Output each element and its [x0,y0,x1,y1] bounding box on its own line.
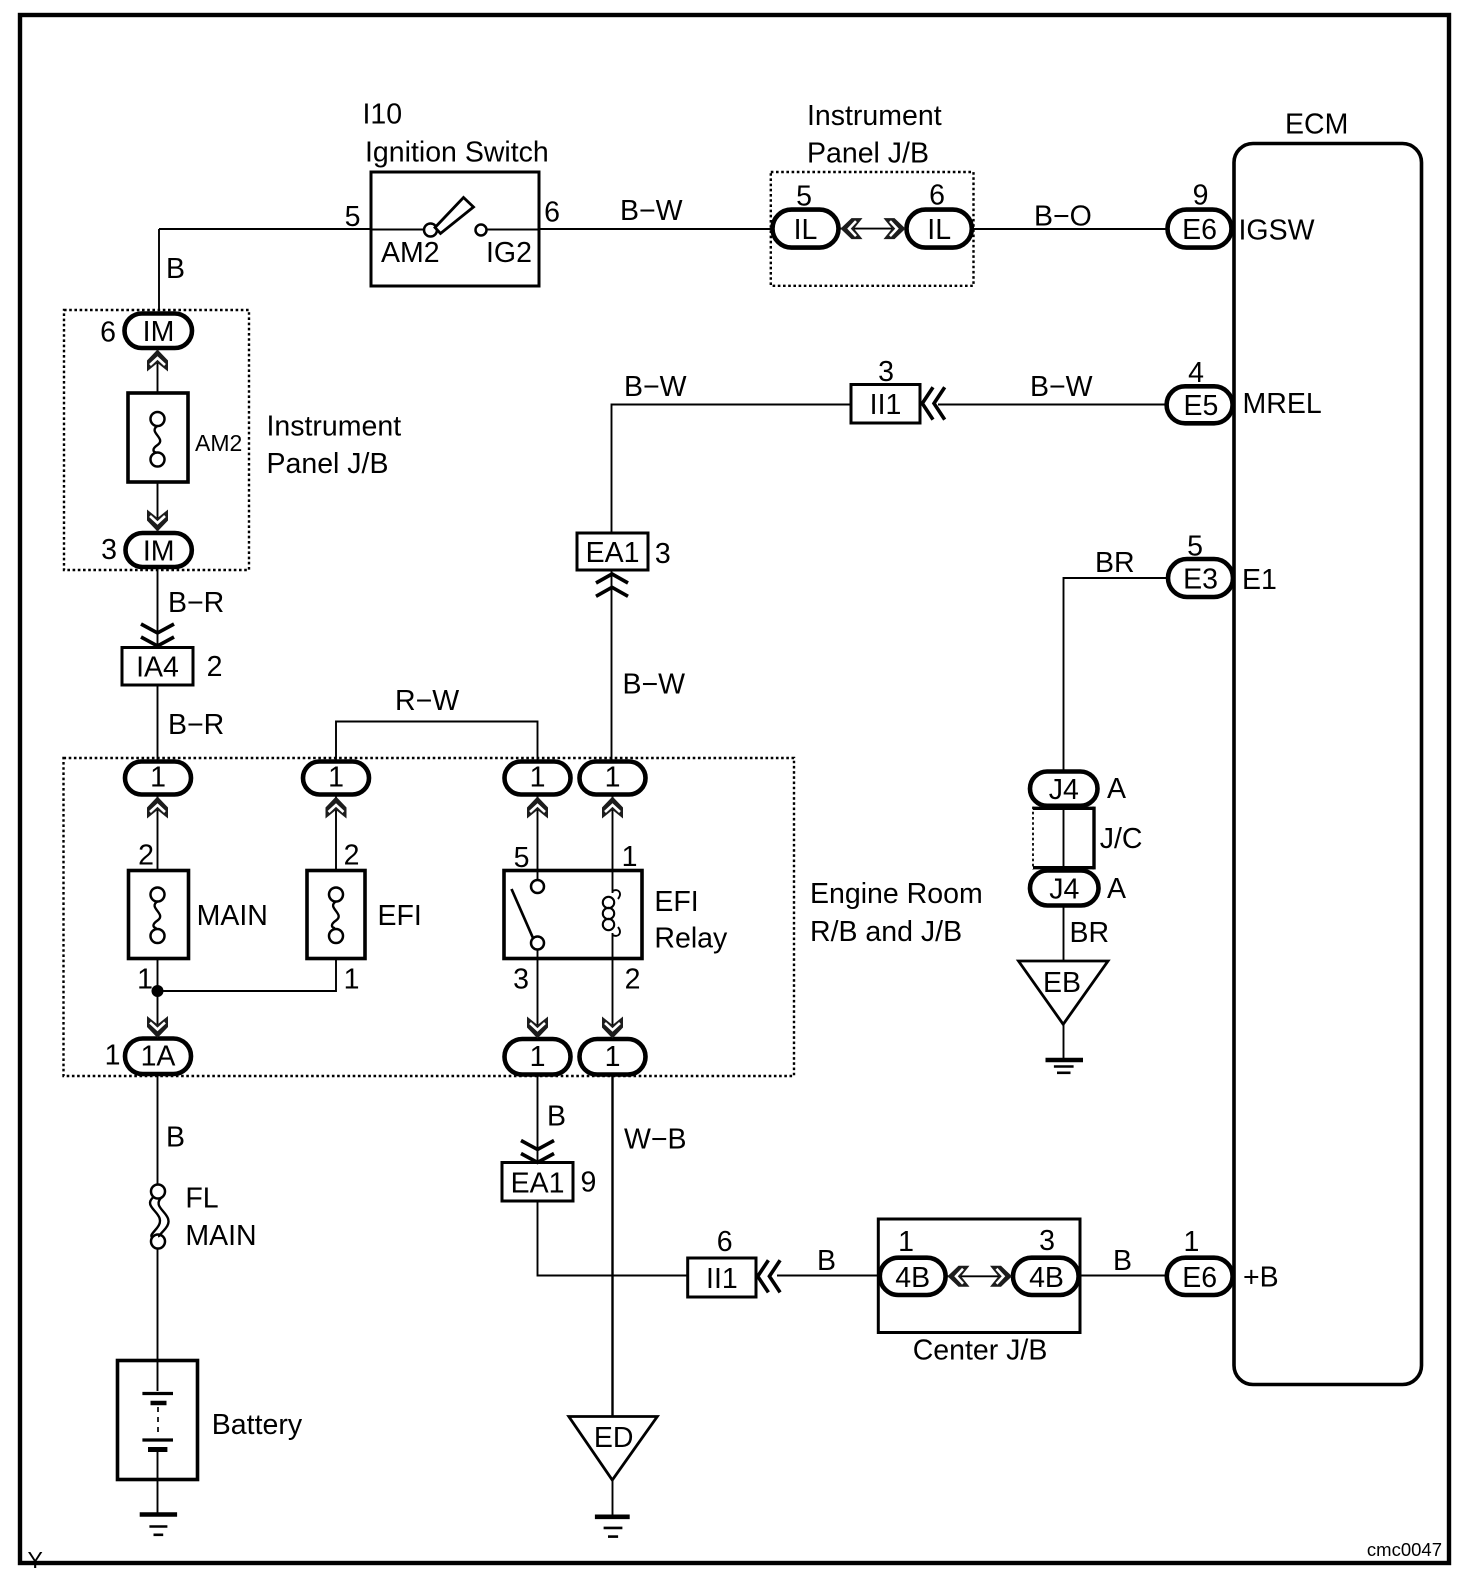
svg-text:MREL: MREL [1243,388,1322,420]
svg-text:B: B [547,1101,566,1133]
connector IL pin5 oval [773,210,839,248]
svg-text:Instrument: Instrument [807,100,942,132]
wire: battery to ground [157,1478,159,1513]
open chevron left toward II1-3 [922,387,944,419]
hatched arrow up below oval1-relay5 [527,797,548,819]
wire: between IL ovals [838,228,907,230]
hatched arrow down toward 1A [147,1016,168,1038]
wire: through J/C between J4 ovals [1063,805,1065,871]
hatched arrow up below oval1-MAIN [147,797,168,819]
wire: relay pin3 to lower oval [537,957,539,1040]
svg-text:Panel J/B: Panel J/B [807,138,929,170]
wire: oval to MAIN fuse pin2 [157,794,159,871]
wire W-B: oval down to ED ground triangle [611,1074,613,1416]
relay EFI box [504,871,642,959]
svg-text:EFI: EFI [654,886,698,918]
svg-text:EFI: EFI [378,900,422,932]
svg-text:Instrument: Instrument [267,411,402,443]
connector 4B pin3 oval [1013,1258,1079,1295]
connector IA4 pin2 box [122,648,193,686]
svg-text:E3: E3 [1183,564,1218,596]
wire B: lower oval to EA1-9 [537,1074,539,1163]
svg-text:AM2: AM2 [381,237,440,269]
wire B: 1A oval to FL MAIN [157,1074,159,1185]
wire B-R: IM(3) to IA4 [157,567,159,649]
connector oval 1A [125,1039,191,1075]
fuse MAIN [129,871,189,959]
relay switch contact bottom (pin3) [531,937,544,950]
connector oval 1 (to EFI) [303,762,369,795]
instrument panel J/B box (top) [771,172,974,286]
svg-text:W−B: W−B [624,1124,687,1156]
svg-text:MAIN: MAIN [185,1220,256,1252]
wire BR: J4 to EB triangle [1063,905,1065,961]
svg-text:J4: J4 [1049,774,1079,806]
ground (battery) [140,1515,177,1535]
svg-text:3: 3 [655,538,671,570]
wire: EB apex to ground [1063,1024,1065,1058]
svg-text:EB: EB [1043,967,1081,999]
wire B: vertical drop to IM connector [158,229,160,311]
connector E5 pin4 oval (MREL) [1167,386,1233,423]
wire: MAIN fuse pin1 to 1A oval via junction [157,957,159,1040]
center J/B box [878,1219,1080,1333]
svg-text:5: 5 [796,181,812,213]
battery [118,1360,198,1480]
connector oval 1 (relay2 out) [580,1039,646,1075]
svg-text:B: B [817,1245,836,1277]
hatched arrow down toward oval relay2 [602,1017,623,1039]
wire: oval to EFI fuse pin2 [335,794,337,871]
ground (ED) [595,1517,630,1537]
svg-text:3: 3 [101,534,117,566]
svg-text:J4: J4 [1049,874,1079,906]
svg-text:6: 6 [100,317,116,349]
svg-text:B: B [166,253,185,285]
svg-text:2: 2 [207,651,223,683]
svg-text:6: 6 [717,1226,733,1258]
svg-text:ED: ED [594,1422,634,1454]
svg-text:J/C: J/C [1100,823,1143,855]
ignition switch contact AM2 [424,224,437,237]
svg-text:IGSW: IGSW [1239,214,1315,246]
connector II1 pin3 box [851,385,920,424]
svg-text:1: 1 [530,762,546,794]
svg-text:II1: II1 [706,1263,738,1295]
hatched arrow up below oval1-EFI [326,797,347,819]
svg-text:I10: I10 [363,99,403,131]
relay coil [603,870,620,958]
svg-text:B−W: B−W [624,371,687,403]
ground triangle EB [1019,961,1109,1024]
svg-text:E1: E1 [1242,564,1277,596]
svg-text:B−W: B−W [620,195,683,227]
wire B-W: I10 pin6 to IL(5) [539,228,773,230]
ground (EB) [1046,1060,1084,1073]
fuse AM2 (instrument panel) [128,393,188,482]
relay switch contact top (pin5) [537,870,539,880]
wire: IM(6) to fuse AM2 [157,348,159,394]
svg-text:B−W: B−W [1030,371,1093,403]
hatched arrow up toward IM6 [147,350,168,372]
hatched arrow up below oval1-relay1 [602,797,623,819]
svg-text:IL: IL [927,214,951,246]
svg-text:3: 3 [1039,1225,1055,1257]
svg-text:3: 3 [878,356,894,388]
hatched arrow toward 4B-3 [990,1266,1012,1287]
wire B-W: II1 left across and down to EA1 [612,405,852,535]
svg-text:cmc0047: cmc0047 [1367,1539,1442,1560]
svg-text:Relay: Relay [654,923,728,955]
svg-text:II1: II1 [870,389,902,421]
svg-text:2: 2 [625,964,641,996]
wire: fuse AM2 to IM(3) [157,482,159,533]
svg-text:1: 1 [605,1041,621,1073]
svg-text:6: 6 [929,180,945,212]
ECM box U1 [1234,144,1422,1385]
wire BR: ECM E3-5 E1 across and down to J4 [1064,578,1169,772]
junction connector J4-A oval (bottom) [1030,871,1099,906]
svg-text:AM2: AM2 [195,430,242,456]
svg-text:1: 1 [898,1226,914,1258]
ground triangle ED [569,1417,658,1481]
svg-text:4: 4 [1188,357,1204,389]
svg-text:1: 1 [137,964,153,996]
connector EA1 pin9 box [502,1163,573,1202]
wire B: ignition feed horizontal to I10 pin5 [159,228,371,230]
open chevron left toward II1-6 [758,1260,780,1292]
connector oval 1 (to relay 5) [505,762,571,795]
svg-text:Center J/B: Center J/B [913,1335,1048,1367]
hatched arrow down toward oval relay3 [527,1017,548,1039]
svg-text:IG2: IG2 [486,237,532,269]
svg-text:6: 6 [544,197,560,229]
fusible link FL MAIN [150,1185,169,1249]
connector oval 1 (to MAIN) [125,762,191,795]
svg-text:5: 5 [1187,531,1203,563]
wire inside ignition switch from IG2 contact [487,229,540,231]
hatched arrow toward IL6 [884,218,906,239]
svg-text:Ignition Switch: Ignition Switch [365,137,549,169]
svg-text:Engine Room: Engine Room [810,878,983,910]
svg-text:1A: 1A [141,1041,176,1073]
svg-text:1: 1 [105,1040,121,1072]
svg-text:B−O: B−O [1034,201,1092,233]
hatched arrow toward 4B-1 [948,1266,970,1287]
wire B: II1-6 to 4B(1) [777,1275,880,1277]
engine room R/B and J/B box [64,758,795,1076]
junction block J/C [1033,807,1094,870]
hatched arrow down toward IM3 [147,510,168,532]
svg-text:EA1: EA1 [586,537,640,569]
svg-text:Battery: Battery [212,1409,303,1441]
connector oval 1 (to relay 1) [580,762,646,795]
connector II1 pin6 box [688,1258,756,1297]
wire B-R: IA4 to engine room oval 1 [157,685,159,763]
svg-text:2: 2 [138,840,154,872]
svg-text:B−R: B−R [168,709,224,741]
svg-text:1: 1 [1183,1226,1199,1258]
svg-text:5: 5 [514,842,530,874]
svg-text:4B: 4B [895,1262,930,1294]
svg-text:4B: 4B [1029,1262,1064,1294]
connector oval 1 (relay3 out) [505,1039,571,1075]
wire: oval to relay pin1 [612,794,614,871]
wire B: 4B(3) to ECM E6-1 [1079,1275,1167,1277]
open chevron down toward IA4 [141,624,174,646]
svg-text:B−W: B−W [623,669,686,701]
connector E6 pin9 oval (IGSW) [1168,210,1232,248]
svg-text:2: 2 [344,840,360,872]
svg-text:A: A [1107,873,1126,905]
fuse EFI [307,871,365,959]
svg-text:Panel J/B: Panel J/B [267,448,389,480]
svg-text:IA4: IA4 [136,652,179,684]
svg-text:FL: FL [185,1183,218,1215]
wire B: FL MAIN to battery [157,1248,159,1361]
relay switch lever [512,889,534,938]
ignition switch contact IG2 [476,225,487,236]
connector EA1 pin3 box [577,533,648,570]
wire B-O: IL(6) to ECM E6-9 [972,228,1168,230]
connector E6 pin1 oval (+B) [1167,1258,1233,1295]
svg-text:1: 1 [344,964,360,996]
wire B-W: EA1 down to relay coil oval [611,570,613,763]
wire R-W: EFI oval up and across to relay oval [336,722,538,764]
wire B: EA1-9 down and across to II1-6 [538,1201,688,1276]
svg-text:B: B [1113,1245,1132,1277]
svg-text:1: 1 [530,1041,546,1073]
svg-text:A: A [1107,773,1126,805]
ignition switch lever [435,198,474,234]
svg-text:BR: BR [1095,547,1135,579]
junction connector J4-A oval (top) [1030,772,1098,806]
svg-text:IL: IL [794,214,818,246]
svg-text:ECM: ECM [1285,109,1348,141]
svg-text:1: 1 [605,762,621,794]
open chevron up toward EA1-3 [596,574,628,596]
connector E3 pin5 oval (E1) [1168,559,1233,597]
wire: between 4B ovals [946,1275,1015,1277]
svg-text:1: 1 [150,762,166,794]
wire: junction branch to EFI fuse pin1 [158,957,337,991]
svg-text:EA1: EA1 [511,1168,565,1200]
junction node: MAIN fuse output [152,985,164,997]
wire: ED apex to ground [612,1480,614,1515]
connector IL pin6 oval [907,210,972,248]
svg-text:MAIN: MAIN [197,900,268,932]
svg-text:+B: +B [1243,1262,1279,1294]
svg-text:9: 9 [580,1167,596,1199]
svg-text:BR: BR [1070,917,1110,949]
svg-text:B: B [166,1122,185,1154]
svg-text:E6: E6 [1182,1262,1217,1294]
svg-text:IM: IM [143,536,175,568]
svg-text:B−R: B−R [168,587,224,619]
connector 4B pin1 oval [880,1258,946,1295]
hatched arrow toward IL5 [841,218,863,239]
svg-text:IM: IM [143,316,175,348]
wire inside ignition switch to AM2 contact [371,229,424,231]
open chevron down toward EA1-9 [521,1141,554,1163]
connector IM pin6 oval [125,314,193,349]
svg-text:1: 1 [622,841,638,873]
svg-text:5: 5 [345,201,361,233]
svg-text:E6: E6 [1182,214,1217,246]
wire B-W: ECM E5-4 MREL to II1 [938,404,1167,406]
svg-text:9: 9 [1193,180,1209,212]
instrument panel J/B box (left) [64,310,249,570]
ignition switch I10 box [371,172,539,286]
svg-text:E5: E5 [1183,390,1218,422]
wire: relay pin2 to lower oval [612,957,614,1040]
svg-text:R−W: R−W [395,685,459,717]
svg-text:R/B and J/B: R/B and J/B [810,916,962,948]
svg-text:1: 1 [328,762,344,794]
svg-text:Y: Y [28,1547,43,1573]
svg-text:3: 3 [513,964,529,996]
wire: oval to relay pin5 [537,794,539,871]
connector IM pin3 oval [126,533,192,567]
